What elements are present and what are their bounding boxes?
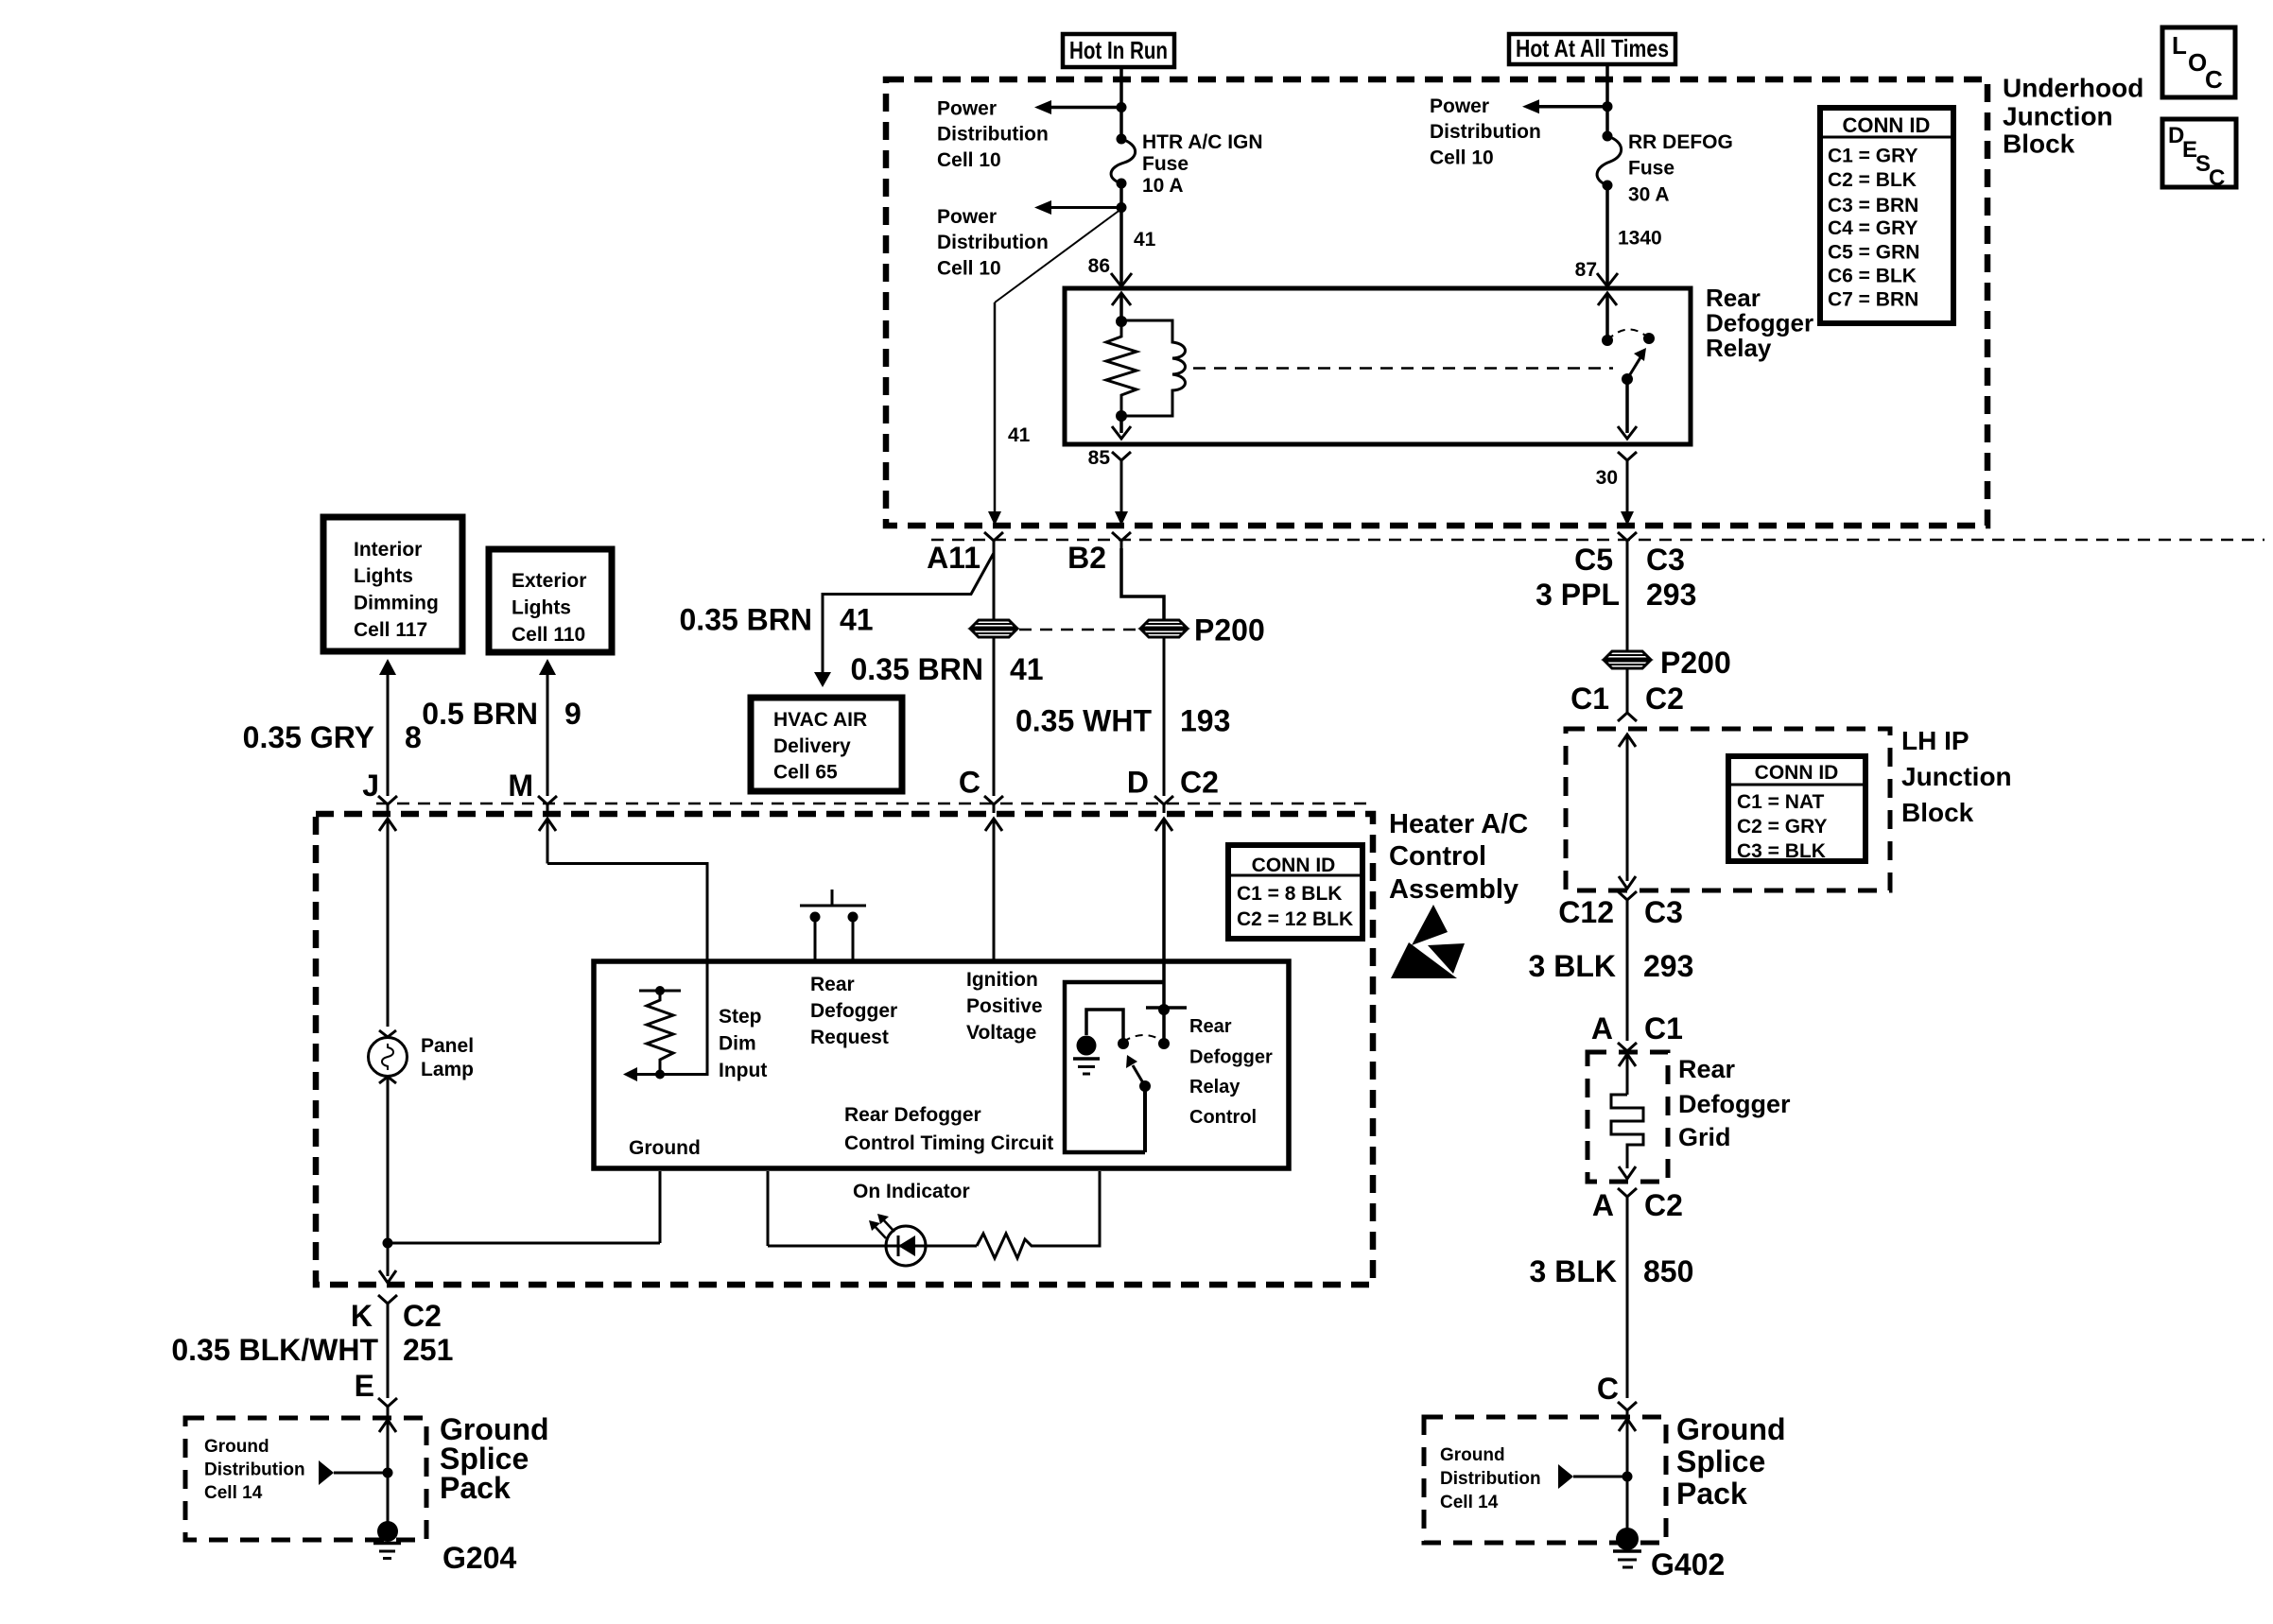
svg-text:Dim: Dim [719, 1033, 756, 1055]
svg-text:CONN ID: CONN ID [1843, 113, 1931, 137]
svg-text:Relay: Relay [1189, 1077, 1241, 1097]
svg-text:D: D [1127, 766, 1149, 800]
svg-text:Control Timing Circuit: Control Timing Circuit [844, 1132, 1053, 1154]
svg-text:Lamp: Lamp [421, 1059, 474, 1080]
svg-text:Lights: Lights [512, 597, 571, 619]
svg-text:10 A: 10 A [1142, 175, 1184, 197]
svg-text:C: C [1597, 1372, 1619, 1406]
svg-text:Ground: Ground [629, 1137, 701, 1159]
svg-text:Power: Power [937, 206, 997, 228]
svg-text:C5 = GRN: C5 = GRN [1828, 242, 1919, 264]
svg-text:C2: C2 [403, 1299, 442, 1333]
svg-text:C2 = GRY: C2 = GRY [1737, 816, 1828, 838]
svg-text:Junction: Junction [1901, 762, 2012, 791]
svg-text:30: 30 [1596, 467, 1618, 489]
svg-text:Fuse: Fuse [1628, 158, 1674, 180]
svg-text:Underhood: Underhood [2003, 74, 2143, 103]
svg-text:8: 8 [405, 720, 422, 754]
svg-text:41: 41 [1010, 652, 1044, 686]
svg-text:C6 = BLK: C6 = BLK [1828, 266, 1917, 287]
svg-text:1340: 1340 [1618, 228, 1662, 250]
svg-text:0.35 BRN: 0.35 BRN [680, 603, 813, 637]
svg-text:Block: Block [1901, 798, 1974, 827]
svg-text:41: 41 [840, 603, 874, 637]
svg-text:3 BLK: 3 BLK [1529, 949, 1616, 983]
svg-text:293: 293 [1646, 578, 1696, 612]
svg-text:C: C [2205, 65, 2223, 94]
svg-text:C1: C1 [1644, 1011, 1683, 1045]
svg-text:C4 = GRY: C4 = GRY [1828, 217, 1918, 239]
svg-text:Pack: Pack [440, 1471, 511, 1505]
svg-text:Rear: Rear [1189, 1016, 1232, 1037]
svg-text:Cell 117: Cell 117 [354, 619, 427, 641]
svg-text:Assembly: Assembly [1389, 874, 1518, 905]
svg-text:86: 86 [1088, 255, 1110, 277]
svg-text:0.35 BRN: 0.35 BRN [851, 652, 984, 686]
svg-text:Defogger: Defogger [1678, 1090, 1791, 1118]
svg-text:HVAC AIR: HVAC AIR [773, 709, 867, 731]
svg-text:85: 85 [1088, 447, 1111, 469]
svg-text:Request: Request [810, 1027, 889, 1048]
svg-text:C3: C3 [1646, 543, 1685, 577]
svg-text:G204: G204 [442, 1541, 516, 1575]
svg-text:Power: Power [1430, 95, 1489, 117]
svg-text:CONN ID: CONN ID [1252, 855, 1336, 876]
svg-text:0.35 BLK/WHT: 0.35 BLK/WHT [171, 1333, 378, 1367]
svg-text:A: A [1592, 1188, 1614, 1222]
svg-text:Block: Block [2003, 130, 2075, 159]
svg-text:Distribution: Distribution [937, 232, 1049, 253]
svg-text:Defogger: Defogger [1189, 1047, 1273, 1068]
svg-text:Step: Step [719, 1006, 762, 1028]
svg-text:41: 41 [1008, 424, 1031, 446]
svg-text:On Indicator: On Indicator [853, 1181, 970, 1202]
svg-text:Rear: Rear [1678, 1055, 1736, 1083]
svg-text:Fuse: Fuse [1142, 153, 1189, 175]
svg-text:G402: G402 [1651, 1547, 1725, 1581]
svg-text:Rear: Rear [1706, 284, 1761, 312]
svg-text:850: 850 [1643, 1254, 1693, 1288]
svg-text:C3 = BRN: C3 = BRN [1828, 195, 1918, 216]
svg-text:Cell 14: Cell 14 [1440, 1493, 1499, 1512]
svg-text:C7 = BRN: C7 = BRN [1828, 289, 1918, 311]
svg-text:P200: P200 [1660, 646, 1731, 680]
svg-text:0.5 BRN: 0.5 BRN [422, 697, 538, 731]
svg-text:Dimming: Dimming [354, 593, 439, 614]
svg-text:3 BLK: 3 BLK [1530, 1254, 1617, 1288]
svg-text:Grid: Grid [1678, 1123, 1731, 1151]
svg-text:Rear Defogger: Rear Defogger [844, 1104, 981, 1126]
svg-text:Distribution: Distribution [1430, 121, 1541, 143]
svg-text:Heater A/C: Heater A/C [1389, 809, 1528, 839]
svg-text:Distribution: Distribution [937, 124, 1049, 146]
svg-text:41: 41 [1134, 229, 1156, 251]
svg-text:K: K [351, 1299, 373, 1333]
svg-text:Cell 10: Cell 10 [937, 149, 1001, 171]
svg-text:Ground: Ground [204, 1437, 269, 1457]
svg-text:Hot At All Times: Hot At All Times [1516, 34, 1669, 62]
svg-text:87: 87 [1575, 259, 1597, 281]
svg-text:Positive: Positive [966, 995, 1043, 1017]
svg-text:Input: Input [719, 1060, 767, 1081]
svg-text:C2: C2 [1645, 682, 1684, 716]
svg-text:Ground: Ground [1440, 1445, 1505, 1465]
svg-text:30 A: 30 A [1628, 184, 1670, 206]
svg-text:Pack: Pack [1676, 1477, 1747, 1511]
svg-text:Rear: Rear [810, 974, 855, 995]
svg-text:Cell 10: Cell 10 [1430, 147, 1494, 169]
svg-text:0.35 GRY: 0.35 GRY [243, 720, 374, 754]
svg-text:C3 = BLK: C3 = BLK [1737, 840, 1826, 862]
svg-text:C1 = GRY: C1 = GRY [1828, 146, 1918, 167]
svg-text:C: C [2209, 165, 2225, 191]
svg-text:Cell 110: Cell 110 [512, 624, 585, 646]
svg-text:3 PPL: 3 PPL [1536, 578, 1620, 612]
svg-text:Delivery: Delivery [773, 735, 851, 757]
svg-text:M: M [508, 769, 533, 803]
svg-text:Distribution: Distribution [204, 1460, 305, 1480]
svg-text:Exterior: Exterior [512, 570, 586, 592]
svg-text:C2 = 12 BLK: C2 = 12 BLK [1237, 908, 1353, 930]
svg-text:E: E [355, 1369, 374, 1403]
svg-text:LH IP: LH IP [1901, 726, 1969, 755]
svg-text:P200: P200 [1194, 613, 1265, 648]
svg-text:Ignition: Ignition [966, 969, 1038, 991]
svg-text:C1 = NAT: C1 = NAT [1737, 791, 1825, 813]
svg-text:Cell 65: Cell 65 [773, 762, 838, 784]
svg-text:CONN ID: CONN ID [1755, 762, 1839, 784]
svg-text:251: 251 [403, 1333, 453, 1367]
svg-text:293: 293 [1643, 949, 1693, 983]
svg-text:Ground: Ground [1676, 1412, 1786, 1446]
svg-text:Hot In Run: Hot In Run [1069, 36, 1168, 64]
svg-text:Panel: Panel [421, 1035, 474, 1057]
svg-text:C: C [959, 766, 980, 800]
svg-text:Junction: Junction [2003, 102, 2113, 131]
svg-text:L: L [2172, 31, 2187, 60]
svg-text:RR DEFOG: RR DEFOG [1628, 131, 1733, 153]
svg-text:J: J [362, 769, 379, 803]
svg-text:C2 = BLK: C2 = BLK [1828, 169, 1917, 191]
svg-text:9: 9 [564, 697, 581, 731]
svg-text:C12: C12 [1558, 895, 1614, 929]
svg-text:Control: Control [1189, 1107, 1257, 1128]
svg-text:C2: C2 [1180, 766, 1219, 800]
svg-text:A: A [1591, 1011, 1613, 1045]
svg-text:Control: Control [1389, 841, 1486, 872]
svg-text:Cell 10: Cell 10 [937, 258, 1001, 280]
svg-text:Relay: Relay [1706, 334, 1772, 362]
svg-text:C5: C5 [1574, 543, 1613, 577]
svg-text:C3: C3 [1644, 895, 1683, 929]
svg-text:A11: A11 [927, 541, 980, 575]
svg-text:C1 = 8 BLK: C1 = 8 BLK [1237, 883, 1342, 905]
svg-text:Interior: Interior [354, 539, 422, 561]
svg-text:193: 193 [1180, 704, 1230, 738]
svg-text:HTR A/C IGN: HTR A/C IGN [1142, 131, 1263, 153]
svg-text:Voltage: Voltage [966, 1022, 1036, 1044]
svg-text:Defogger: Defogger [1706, 309, 1813, 337]
svg-text:Defogger: Defogger [810, 1000, 897, 1022]
svg-text:Power: Power [937, 98, 997, 120]
svg-text:Cell 14: Cell 14 [204, 1483, 263, 1503]
svg-text:C2: C2 [1644, 1188, 1683, 1222]
svg-text:C1: C1 [1570, 682, 1609, 716]
svg-text:0.35 WHT: 0.35 WHT [1015, 704, 1152, 738]
svg-text:Lights: Lights [354, 565, 413, 587]
svg-text:B2: B2 [1067, 541, 1106, 575]
svg-text:Splice: Splice [1676, 1444, 1765, 1478]
svg-text:Distribution: Distribution [1440, 1469, 1541, 1489]
